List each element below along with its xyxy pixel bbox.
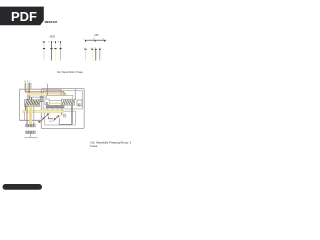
svg-text:230: 230	[94, 34, 99, 37]
svg-text:NO: NO	[50, 121, 53, 123]
svg-text:PDF: PDF	[11, 9, 37, 24]
svg-text:Fasa: Fasa	[90, 144, 97, 148]
svg-text:MERAKIT: MERAKIT	[45, 20, 58, 24]
svg-text:L: L	[84, 38, 85, 40]
svg-text:Gb. Panel Motor 3 Fase: Gb. Panel Motor 3 Fase	[57, 71, 84, 74]
svg-text:MCB: MCB	[50, 35, 56, 38]
svg-text:o: o	[46, 83, 47, 85]
